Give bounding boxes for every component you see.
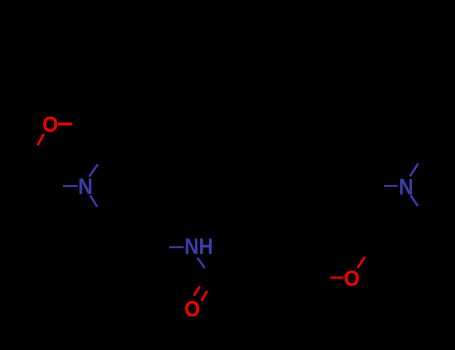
svg-text:O: O bbox=[344, 267, 360, 291]
svg-text:O: O bbox=[42, 113, 58, 137]
svg-text:NH: NH bbox=[185, 235, 214, 259]
svg-text:N: N bbox=[399, 176, 414, 200]
svg-text:N: N bbox=[78, 175, 93, 199]
svg-text:O: O bbox=[184, 298, 200, 322]
